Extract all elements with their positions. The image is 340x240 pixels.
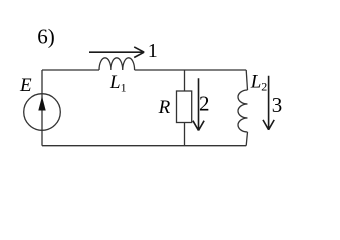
svg-text:E: E bbox=[19, 75, 32, 96]
wire top-right segment bbox=[135, 69, 247, 71]
svg-text:2: 2 bbox=[199, 91, 210, 115]
inductor L2 bbox=[238, 90, 248, 132]
svg-text:6): 6) bbox=[37, 24, 55, 48]
wire right branch top bbox=[246, 70, 247, 90]
wire top-left segment bbox=[42, 69, 99, 71]
wire middle branch top bbox=[184, 70, 186, 91]
svg-text:L2: L2 bbox=[250, 71, 268, 93]
svg-text:R: R bbox=[158, 97, 171, 118]
wire bottom bbox=[42, 145, 246, 147]
arrow 1 bbox=[89, 47, 144, 58]
wire left branch bbox=[41, 70, 43, 146]
svg-text:1: 1 bbox=[148, 40, 158, 62]
resistor R bbox=[177, 91, 192, 123]
wire middle branch bottom bbox=[184, 123, 186, 146]
arrow 2 bbox=[193, 78, 204, 130]
svg-text:L1: L1 bbox=[109, 72, 127, 95]
svg-text:3: 3 bbox=[272, 93, 283, 117]
source E arrowhead bbox=[38, 96, 45, 110]
wire right branch bottom bbox=[246, 132, 247, 146]
source E circle bbox=[24, 94, 61, 131]
arrow 3 bbox=[263, 76, 274, 130]
inductor L1 bbox=[99, 58, 135, 70]
